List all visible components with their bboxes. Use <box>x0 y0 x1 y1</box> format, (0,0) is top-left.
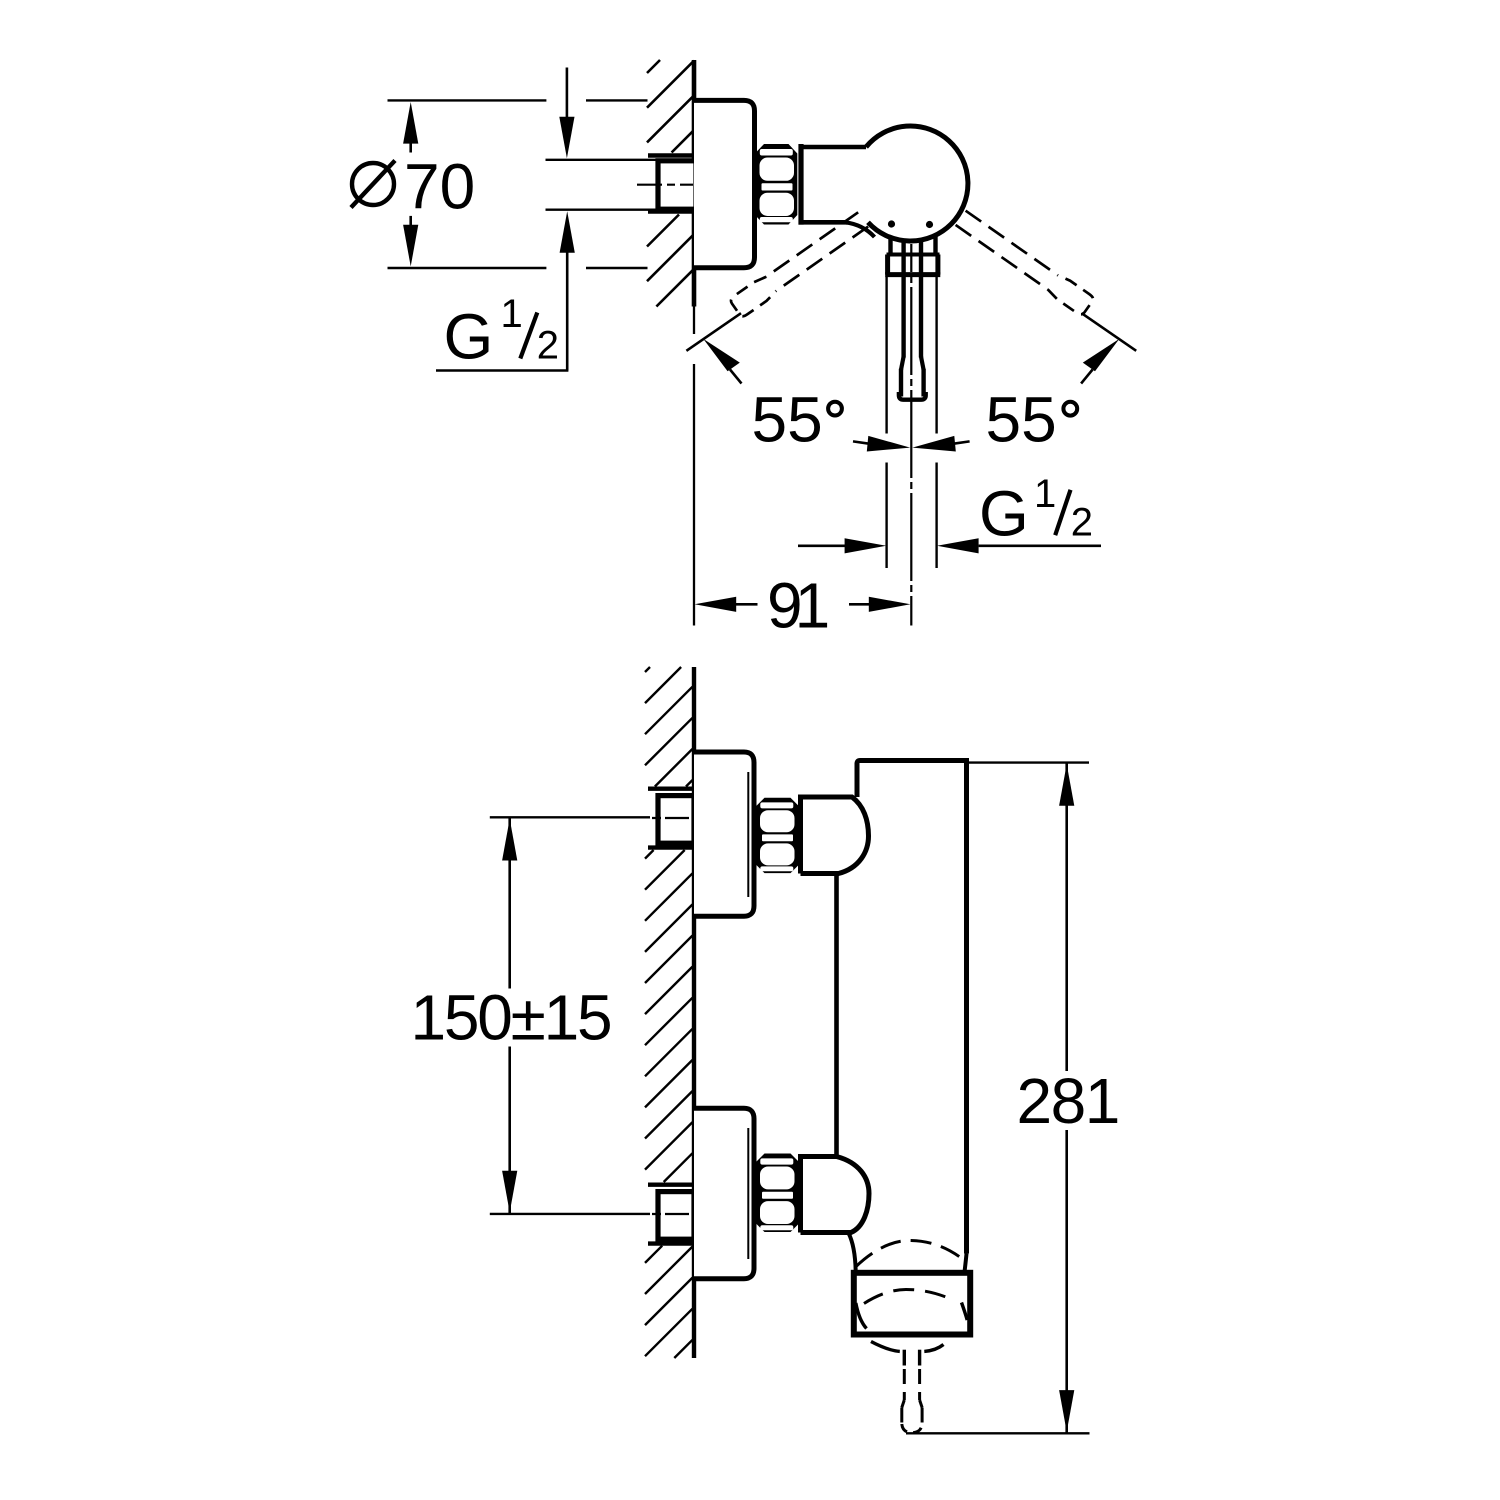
svg-text:G: G <box>979 477 1029 549</box>
svg-text:91: 91 <box>767 570 828 642</box>
svg-text:281: 281 <box>1017 1065 1119 1137</box>
svg-text:55: 55 <box>986 384 1057 456</box>
svg-text:1: 1 <box>501 292 523 336</box>
svg-text:G: G <box>444 301 494 373</box>
svg-text:150±15: 150±15 <box>411 982 611 1054</box>
svg-text:2: 2 <box>1071 500 1093 544</box>
svg-text:70: 70 <box>404 151 475 223</box>
svg-text:1: 1 <box>1034 472 1056 516</box>
svg-text:55: 55 <box>752 384 823 456</box>
svg-text:2: 2 <box>537 324 559 368</box>
